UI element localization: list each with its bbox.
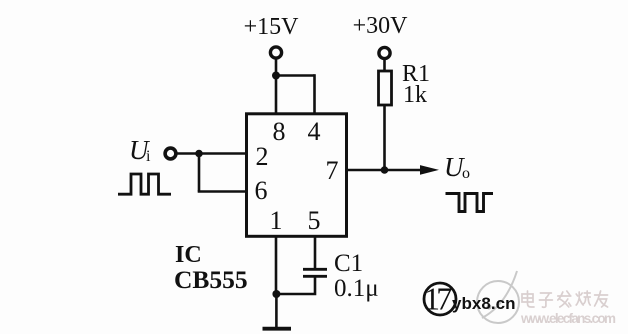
char you xyxy=(595,291,608,307)
node junction on +15V wire xyxy=(272,72,280,80)
terminal +15V xyxy=(270,47,281,58)
wire pin 7 to output arrow xyxy=(347,169,422,172)
wire down to pin 4 xyxy=(313,74,316,114)
svg-text:ybx8.cn: ybx8.cn xyxy=(452,294,516,313)
wire +30V terminal to resistor xyxy=(383,60,386,71)
svg-text:1k: 1k xyxy=(403,82,427,108)
ground xyxy=(263,327,292,331)
wire capacitor to ground node xyxy=(276,276,315,294)
svg-text:7: 7 xyxy=(436,281,452,317)
terminal Ui xyxy=(165,148,176,159)
input square wave symbol xyxy=(118,174,171,194)
svg-text:4: 4 xyxy=(308,117,321,146)
svg-text:www.elecfans.com: www.elecfans.com xyxy=(520,311,616,326)
svg-text:1: 1 xyxy=(270,206,283,235)
circled figure number 17 xyxy=(424,283,456,315)
resistor R1 body xyxy=(379,71,392,105)
capacitor C1 bottom plate xyxy=(303,275,327,278)
svg-text:6: 6 xyxy=(255,176,268,205)
svg-text:o: o xyxy=(462,165,470,182)
svg-text:+15V: +15V xyxy=(244,14,300,40)
wire to pin 6 xyxy=(198,190,246,193)
wire junction to pin 4 (horizontal) xyxy=(276,74,315,77)
char fa xyxy=(558,291,571,307)
char dian xyxy=(522,291,534,307)
wire +15V terminal to pin 8 xyxy=(275,60,278,115)
wire pin 1 to ground node xyxy=(275,236,278,294)
wire junction down xyxy=(198,154,201,192)
node junction ground xyxy=(272,290,280,298)
svg-text:+30V: +30V xyxy=(353,13,409,39)
wire resistor to output node xyxy=(383,105,386,170)
wire node to ground xyxy=(275,294,278,328)
svg-text:5: 5 xyxy=(308,206,321,235)
watermark swoosh logo xyxy=(477,271,519,323)
svg-text:CB555: CB555 xyxy=(174,265,248,294)
svg-text:i: i xyxy=(146,148,151,165)
wire Ui terminal to pin 2 xyxy=(178,152,247,155)
IC U1 CB555 body xyxy=(247,114,347,237)
svg-text:7: 7 xyxy=(326,156,339,185)
svg-text:2: 2 xyxy=(256,142,269,171)
output arrowhead xyxy=(420,165,439,175)
char zi xyxy=(539,293,552,307)
svg-text:C1: C1 xyxy=(334,250,363,277)
svg-text:8: 8 xyxy=(273,117,286,146)
terminal +30V xyxy=(379,47,390,58)
node junction output/resistor xyxy=(381,166,389,174)
node junction on input wire xyxy=(195,150,203,158)
svg-text:0.1μ: 0.1μ xyxy=(334,275,379,302)
capacitor C1 top plate xyxy=(303,268,327,271)
output square wave symbol xyxy=(446,194,494,212)
wire pin 5 to capacitor xyxy=(314,236,317,268)
watermark chinese characters (faint) xyxy=(522,291,608,307)
char shao xyxy=(576,291,590,305)
